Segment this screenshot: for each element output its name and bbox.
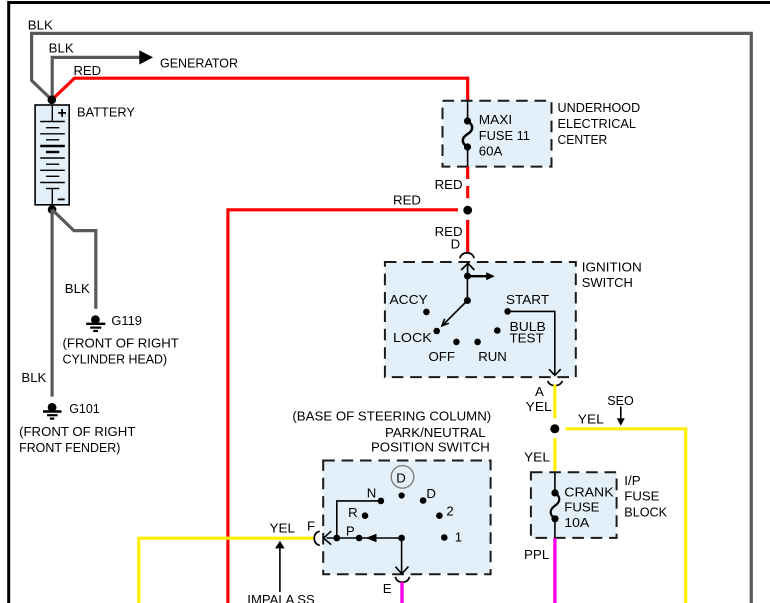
svg-text:POSITION SWITCH: POSITION SWITCH [371, 440, 490, 455]
terminal E arc [395, 577, 409, 582]
svg-text:START: START [506, 292, 549, 307]
contact N [378, 498, 385, 505]
junction YEL splice [550, 424, 559, 433]
contact LOCK [433, 328, 440, 335]
svg-text:A: A [535, 384, 544, 399]
wire YEL splice to crank fuse [553, 438, 556, 472]
ignition rotor arrow toward LOCK [442, 301, 467, 326]
svg-text:SWITCH: SWITCH [582, 275, 633, 290]
svg-text:(FRONT OF RIGHT: (FRONT OF RIGHT [19, 424, 135, 439]
svg-text:G101: G101 [69, 401, 100, 416]
wire YEL ignition A to splice [553, 385, 556, 419]
svg-text:CENTER: CENTER [558, 132, 608, 147]
arrowhead toward F (open V) [324, 531, 332, 545]
ignition rotor stem [466, 276, 468, 301]
svg-text:UNDERHOOD: UNDERHOOD [558, 100, 641, 115]
wire common bus to E with arrows [327, 538, 409, 574]
terminal F arc [314, 531, 319, 545]
contact START [504, 308, 511, 315]
svg-text:IGNITION: IGNITION [582, 260, 642, 275]
svg-text:P: P [346, 524, 355, 539]
arrowhead generator [139, 50, 153, 64]
contact 1 [441, 534, 448, 541]
svg-text:RED: RED [435, 177, 463, 192]
SEO arrow [617, 407, 625, 426]
contact BULB TEST [494, 327, 501, 334]
label UNDERHOOD ELECTRICAL CENTER [558, 100, 641, 147]
label (FRONT OF RIGHT CYLINDER HEAD) [63, 335, 179, 366]
svg-text:RUN: RUN [478, 349, 507, 364]
svg-text:D: D [426, 486, 436, 501]
svg-text:BLK: BLK [65, 281, 90, 296]
terminal D arc [460, 253, 474, 258]
contact D [420, 497, 427, 504]
ground G101 [43, 403, 62, 419]
svg-text:YEL: YEL [270, 520, 296, 535]
junction battery positive [48, 96, 57, 105]
contact OFF [453, 339, 460, 346]
contact RUN [474, 339, 481, 346]
svg-text:1: 1 [455, 530, 462, 545]
wire BLK battery negative to G101 [50, 210, 53, 397]
svg-text:(BASE OF STEERING COLUMN): (BASE OF STEERING COLUMN) [292, 408, 491, 423]
rotor indicator circled D [391, 466, 414, 489]
svg-text:YEL: YEL [526, 399, 552, 414]
svg-text:MAXI: MAXI [479, 112, 512, 127]
junction battery negative [48, 205, 57, 214]
svg-text:FUSE 11: FUSE 11 [479, 128, 530, 143]
wire PPL park/neutral E output [400, 582, 403, 603]
wire RED splice to left edge, down [228, 210, 458, 603]
svg-text:YEL: YEL [524, 450, 550, 465]
svg-text:I/P: I/P [624, 473, 641, 488]
IMPALA SS callout arrow [275, 541, 285, 592]
wire BLK battery negative to G119 [52, 210, 96, 309]
svg-text:YEL: YEL [578, 412, 604, 427]
svg-text:2: 2 [446, 503, 453, 518]
svg-text:RED: RED [74, 63, 102, 78]
junction RED splice [463, 206, 472, 215]
I/P fuse block box [531, 472, 617, 538]
svg-text:FUSE: FUSE [624, 489, 659, 504]
svg-text:PPL: PPL [524, 547, 549, 562]
contact 2 [436, 512, 443, 519]
svg-text:N: N [367, 485, 377, 500]
terminal A arc [548, 381, 563, 386]
label I/P FUSE BLOCK [624, 473, 667, 519]
label IGNITION SWITCH [582, 260, 642, 291]
svg-text:OFF: OFF [429, 349, 456, 364]
svg-text:R: R [348, 505, 358, 520]
wire YEL splice to SEO drop [565, 429, 685, 603]
svg-text:PARK/NEUTRAL: PARK/NEUTRAL [385, 425, 486, 440]
svg-text:D: D [396, 471, 406, 486]
label (FRONT OF RIGHT FRONT FENDER) [19, 424, 135, 455]
wire N to common [337, 501, 381, 538]
wire RED fused output (dashed) [466, 167, 469, 199]
svg-text:BLK: BLK [28, 17, 53, 32]
label PARK/NEUTRAL POSITION SWITCH [371, 425, 490, 455]
fuse CRANK FUSE 10A [551, 472, 560, 538]
svg-text:SEO: SEO [607, 393, 634, 408]
svg-text:D: D [451, 237, 461, 252]
svg-text:CYLINDER HEAD): CYLINDER HEAD) [63, 351, 168, 366]
svg-text:ELECTRICAL: ELECTRICAL [558, 116, 637, 131]
ground G119 [86, 315, 105, 331]
svg-text:BLOCK: BLOCK [624, 504, 667, 519]
svg-text:FRONT FENDER): FRONT FENDER) [19, 440, 120, 455]
svg-text:CRANK: CRANK [564, 485, 614, 500]
svg-text:E: E [383, 581, 392, 596]
svg-text:LOCK: LOCK [393, 330, 432, 345]
label MAXI FUSE 11 60A [479, 112, 530, 158]
wire RED splice to ignition D [466, 220, 469, 254]
svg-text:BLK: BLK [49, 41, 74, 56]
underhood electrical center box [443, 101, 552, 167]
svg-text:TEST: TEST [510, 331, 544, 346]
junction ignition rotor upper [464, 273, 471, 280]
park/neutral position switch box [323, 461, 490, 575]
junction ignition rotor lower [464, 297, 471, 304]
wire RED battery positive to maxi fuse [52, 78, 468, 101]
contact R [362, 512, 369, 519]
svg-text:F: F [307, 519, 315, 534]
svg-text:(FRONT OF RIGHT: (FRONT OF RIGHT [63, 335, 179, 350]
svg-text:FUSE: FUSE [564, 500, 599, 515]
ignition branch arrow right [468, 272, 495, 280]
wire START to terminal A with arrow [508, 311, 561, 375]
svg-text:G119: G119 [111, 313, 141, 328]
label BULB TEST [510, 319, 547, 346]
junction common [333, 535, 340, 542]
label CRANK FUSE 10A [564, 485, 614, 531]
svg-text:RED: RED [393, 193, 421, 208]
contact rotor center [399, 492, 405, 498]
junction E branch [398, 535, 405, 542]
svg-text:10A: 10A [564, 515, 589, 530]
contact P [356, 535, 363, 542]
svg-text:IMPALA SS: IMPALA SS [247, 592, 315, 603]
wire BLK #2 to generator [52, 57, 139, 99]
svg-text:BLK: BLK [21, 370, 46, 385]
svg-text:BATTERY: BATTERY [77, 105, 135, 120]
fuse MAXI FUSE 11 60A [463, 101, 472, 167]
contact ACCY [423, 309, 430, 316]
arrowhead on bus (filled left) [366, 534, 377, 542]
svg-text:ACCY: ACCY [390, 292, 428, 307]
svg-text:60A: 60A [479, 143, 503, 158]
svg-text:GENERATOR: GENERATOR [160, 56, 238, 71]
battery B1 [35, 105, 69, 205]
wire YEL bottom to F [139, 538, 314, 603]
ignition rotor arrow up at D [461, 263, 474, 276]
ignition switch box [385, 262, 576, 377]
wire PPL crank fuse output [553, 538, 556, 603]
